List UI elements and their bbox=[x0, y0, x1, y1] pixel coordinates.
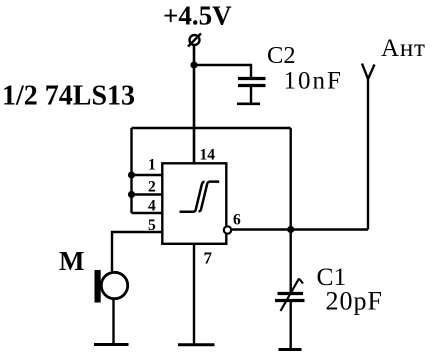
wire top rail bbox=[132, 127, 291, 129]
wire output pin 6 bbox=[231, 228, 368, 230]
schmitt trigger hysteresis symbol bbox=[180, 182, 220, 212]
svg-text:20pF: 20pF bbox=[326, 287, 383, 316]
wire supply vertical to pin 14 bbox=[193, 45, 196, 163]
wire pin 7 to ground bbox=[193, 245, 195, 345]
capacitor C1 trimmer bbox=[275, 294, 305, 301]
wire right vertical rail to C1 bbox=[290, 128, 292, 292]
wire microphone to ground bbox=[112, 299, 114, 345]
wire pin 1 stub bbox=[132, 174, 164, 176]
wire pin 2 stub bbox=[132, 193, 164, 195]
ground microphone bbox=[94, 343, 129, 346]
antenna bbox=[362, 64, 375, 230]
node junction pin 1 bbox=[128, 171, 135, 178]
ground below C1 bbox=[279, 348, 302, 351]
microphone M bbox=[95, 270, 128, 303]
svg-text:2: 2 bbox=[148, 179, 156, 196]
node junction output/right vertical bbox=[287, 226, 294, 233]
terminal +4.5V supply bbox=[188, 34, 201, 47]
svg-text:5: 5 bbox=[148, 217, 156, 234]
svg-text:6: 6 bbox=[233, 212, 241, 229]
svg-text:1/2 74LS13: 1/2 74LS13 bbox=[2, 81, 135, 112]
output inverter bubble pin 6 bbox=[224, 226, 231, 233]
trimmer arrow C1 bbox=[281, 279, 304, 312]
node junction supply/C2 bbox=[190, 61, 197, 68]
svg-text:7: 7 bbox=[204, 249, 213, 268]
wire C2 lower lead bbox=[250, 87, 252, 103]
svg-text:Ант: Ант bbox=[381, 35, 426, 62]
wire left input bus bbox=[130, 128, 132, 213]
svg-text:M: M bbox=[59, 246, 84, 276]
node junction pin 2 bbox=[128, 191, 135, 198]
wire pin 5 from microphone bbox=[112, 232, 163, 271]
svg-text:+4.5V: +4.5V bbox=[163, 1, 232, 31]
capacitor C2 bbox=[238, 79, 266, 86]
svg-text:C2: C2 bbox=[267, 42, 296, 69]
ground pin 7 bbox=[178, 343, 215, 346]
wire pin 4 stub bbox=[132, 212, 164, 214]
IC U1 1/2 74LS13 gate body bbox=[162, 163, 226, 244]
wire C1 lower lead bbox=[290, 302, 292, 348]
svg-text:10nF: 10nF bbox=[284, 68, 343, 95]
wire to capacitor C2 bbox=[194, 65, 251, 77]
svg-text:4: 4 bbox=[148, 198, 156, 215]
svg-text:1: 1 bbox=[148, 157, 156, 174]
svg-text:14: 14 bbox=[200, 147, 216, 164]
ground below C2 bbox=[237, 103, 260, 106]
